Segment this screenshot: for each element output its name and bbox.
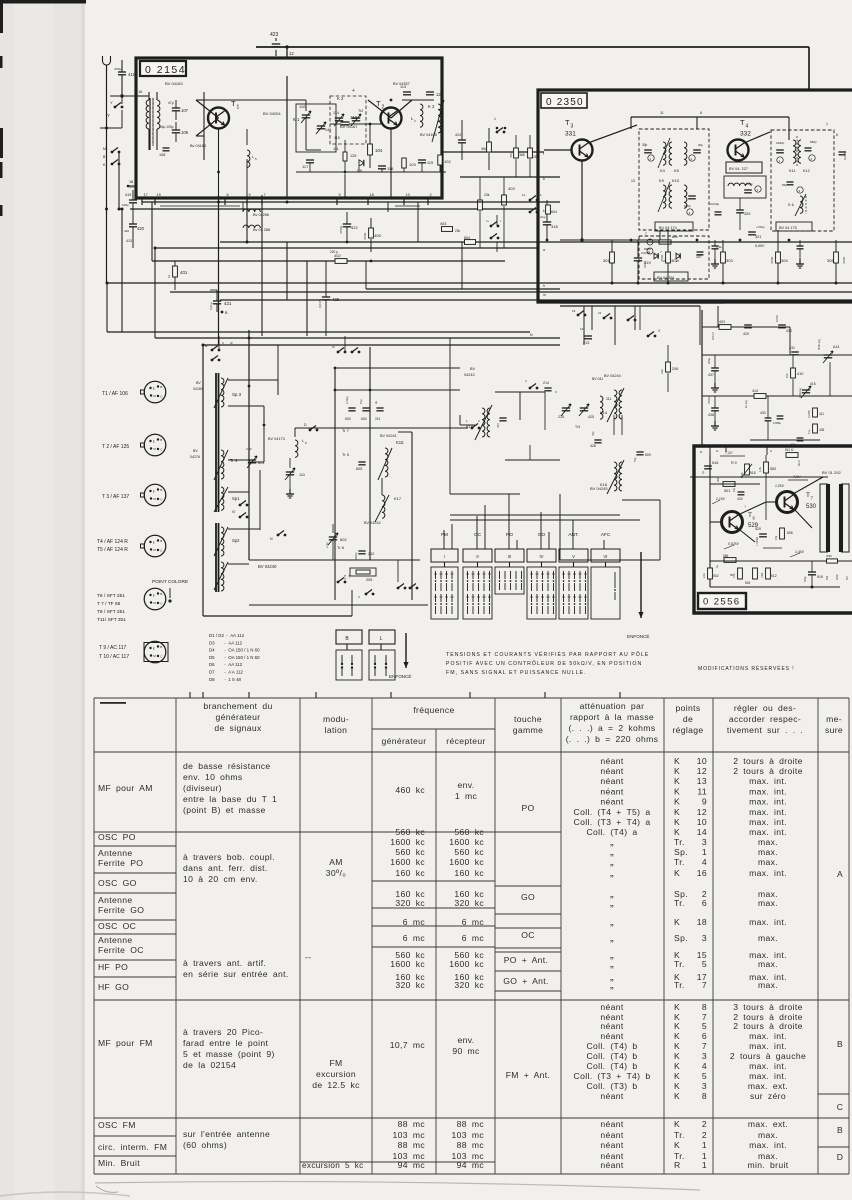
svg-text:16: 16	[138, 90, 142, 94]
svg-text:env. 10 ohms: env. 10 ohms	[183, 772, 243, 782]
svg-text:2: 2	[702, 1119, 707, 1129]
svg-text:ANT.: ANT.	[568, 532, 578, 538]
svg-text:max. int.: max. int.	[749, 797, 787, 807]
svg-text:1600 kc: 1600 kc	[390, 959, 425, 969]
svg-text:Sp2: Sp2	[232, 538, 240, 543]
svg-text:5: 5	[702, 1021, 707, 1031]
svg-text:19: 19	[572, 309, 576, 313]
svg-text:604: 604	[361, 417, 367, 421]
svg-text:Y: Y	[110, 100, 113, 105]
svg-text:11: 11	[660, 111, 664, 115]
svg-text:4: 4	[702, 1061, 707, 1071]
svg-text:15μ: 15μ	[359, 399, 363, 404]
svg-text:(point B) et masse: (point B) et masse	[183, 805, 266, 815]
svg-text:B: B	[160, 385, 162, 389]
svg-text:10: 10	[697, 817, 707, 827]
svg-text:0 2556: 0 2556	[703, 597, 740, 608]
svg-text:(53h: (53h	[826, 554, 832, 558]
svg-text:K10: K10	[672, 178, 680, 183]
svg-text:BV 041: BV 041	[592, 377, 603, 381]
svg-text:431: 431	[789, 346, 795, 350]
svg-text:320 kc: 320 kc	[454, 898, 484, 908]
svg-text:1k: 1k	[167, 274, 171, 278]
svg-text:K11: K11	[789, 169, 795, 173]
svg-text:2,2k/μ: 2,2k/μ	[345, 396, 349, 404]
svg-text:500k-log: 500k-log	[817, 339, 821, 350]
svg-text:K 1: K 1	[293, 117, 300, 122]
svg-text:110: 110	[299, 104, 306, 109]
svg-text:IV: IV	[540, 554, 544, 559]
svg-text:↑: ↑	[744, 504, 746, 509]
svg-text:425: 425	[588, 415, 594, 419]
svg-text:100p: 100p	[122, 203, 129, 207]
svg-text:419: 419	[125, 193, 131, 197]
svg-text:Tr 4: Tr 4	[230, 458, 238, 463]
svg-text:2: 2	[430, 193, 432, 197]
svg-text:30º/₀: 30º/₀	[326, 868, 346, 878]
svg-text:FM: FM	[329, 1058, 342, 1068]
svg-text:660p: 660p	[684, 204, 691, 208]
svg-text:4: 4	[702, 857, 707, 867]
svg-text:428: 428	[332, 297, 340, 302]
svg-text:néant: néant	[600, 1160, 624, 1170]
svg-text:1: 1	[702, 1160, 707, 1170]
svg-text:II: II	[476, 554, 478, 559]
svg-text:modu-: modu-	[323, 714, 349, 724]
svg-text:E: E	[153, 594, 155, 598]
svg-text:415: 415	[810, 382, 816, 386]
svg-text:dans ant. ferr. dist.: dans ant. ferr. dist.	[183, 863, 268, 873]
svg-text:K: K	[674, 1119, 680, 1129]
svg-text:B: B	[160, 645, 162, 649]
svg-text:K: K	[674, 1002, 680, 1012]
svg-text:T: T	[748, 512, 752, 519]
svg-text:K: K	[674, 827, 680, 837]
svg-text:6: 6	[702, 898, 707, 908]
svg-text:Coll. (T4 + T5) a: Coll. (T4 + T5) a	[574, 807, 651, 817]
svg-text:10: 10	[697, 756, 707, 766]
svg-text:403: 403	[508, 186, 515, 191]
svg-text:04169: 04169	[193, 387, 203, 391]
svg-text:à travers 20 Pico-: à travers 20 Pico-	[183, 1027, 263, 1037]
svg-text:4780p: 4780p	[339, 225, 343, 234]
svg-text:7: 7	[645, 232, 647, 236]
svg-text:K: K	[674, 1051, 680, 1061]
svg-text:1600 kc: 1600 kc	[449, 837, 484, 847]
svg-text:3: 3	[702, 837, 707, 847]
svg-text:12: 12	[697, 807, 707, 817]
svg-text:2μ: 2μ	[374, 400, 378, 404]
svg-text:5: 5	[702, 959, 707, 969]
svg-text:605: 605	[356, 467, 362, 471]
svg-text:88 mc: 88 mc	[457, 1119, 485, 1129]
svg-text:tivement sur . . .: tivement sur . . .	[727, 725, 803, 735]
svg-text:3,220k: 3,220k	[807, 410, 811, 418]
svg-text:2,16V: 2,16V	[715, 497, 726, 501]
svg-text:de signaux: de signaux	[214, 723, 262, 733]
svg-text:7μ: 7μ	[701, 470, 705, 474]
svg-text:K16: K16	[600, 482, 608, 487]
svg-text:530: 530	[806, 504, 817, 510]
svg-text:583: 583	[770, 467, 776, 471]
svg-text:à travers bob. coupl.: à travers bob. coupl.	[183, 852, 275, 862]
svg-text:B: B	[837, 1039, 843, 1049]
svg-text:Coll. (T3 + T4) b: Coll. (T3 + T4) b	[574, 1071, 651, 1081]
svg-text:88 mc: 88 mc	[457, 1140, 485, 1150]
svg-text:212: 212	[368, 552, 374, 556]
svg-text:K: K	[674, 917, 680, 927]
svg-text:Coll. (T3 + T4) a: Coll. (T3 + T4) a	[574, 817, 651, 827]
svg-text:436: 436	[819, 428, 825, 432]
svg-text:304: 304	[781, 258, 788, 263]
svg-text:K14: K14	[600, 410, 608, 415]
svg-text:T11/ SFT 351: T11/ SFT 351	[97, 617, 126, 623]
svg-text:D4 - OA 150 / 1 N 60: D4 - OA 150 / 1 N 60	[209, 648, 260, 653]
svg-text:régler ou des-: régler ou des-	[734, 703, 796, 713]
svg-text:K5: K5	[674, 168, 680, 173]
svg-text:néant: néant	[600, 1140, 624, 1150]
svg-text:K 6: K 6	[788, 203, 794, 207]
svg-text:HF GO: HF GO	[98, 982, 129, 992]
svg-text:D5 - OA 150 / 1 N 60: D5 - OA 150 / 1 N 60	[209, 655, 260, 660]
svg-text:47p: 47p	[496, 423, 500, 428]
svg-text:+: +	[352, 88, 355, 94]
svg-text:2: 2	[382, 105, 385, 111]
svg-text:160 kc: 160 kc	[395, 868, 425, 878]
svg-text:18: 18	[129, 180, 133, 184]
svg-text:3: 3	[702, 933, 707, 943]
svg-text:max.: max.	[758, 857, 778, 867]
svg-text:Ferrite GO: Ferrite GO	[98, 905, 144, 915]
svg-text:30p: 30p	[698, 143, 703, 147]
svg-text:47k: 47k	[509, 153, 513, 158]
svg-text:6,27 V: 6,27 V	[370, 196, 381, 200]
svg-text:OSC FM: OSC FM	[98, 1120, 136, 1130]
svg-text:100p: 100p	[746, 182, 753, 186]
svg-text:BV 04168: BV 04168	[420, 133, 437, 137]
svg-text:E: E	[153, 490, 155, 494]
svg-text:30p: 30p	[642, 143, 648, 147]
svg-text:433: 433	[760, 411, 766, 415]
svg-text:env.: env.	[457, 1035, 474, 1045]
svg-text:K: K	[674, 1091, 680, 1101]
svg-text:Antenne: Antenne	[98, 848, 132, 858]
svg-text:circ. interm. FM: circ. interm. FM	[98, 1142, 167, 1152]
svg-text:115: 115	[334, 136, 340, 140]
svg-text:néant: néant	[600, 756, 624, 766]
svg-text:T6 / SFT 351: T6 / SFT 351	[97, 593, 125, 599]
svg-text:de 12.5 kc: de 12.5 kc	[312, 1080, 360, 1090]
svg-text:15k: 15k	[774, 535, 778, 540]
svg-text:302: 302	[671, 258, 678, 263]
svg-text:320 kc: 320 kc	[395, 898, 425, 908]
svg-text:BV: BV	[470, 367, 476, 371]
svg-text:21: 21	[598, 311, 602, 315]
svg-text:10,7 mc: 10,7 mc	[390, 1040, 426, 1050]
svg-text:103: 103	[409, 162, 416, 167]
svg-text:0 2154: 0 2154	[145, 64, 186, 76]
svg-text:502: 502	[713, 574, 719, 578]
svg-text:BV 04242: BV 04242	[364, 521, 381, 525]
svg-text:64μ 100μ: 64μ 100μ	[160, 125, 174, 129]
svg-text:1: 1	[702, 1140, 707, 1150]
svg-text:15: 15	[157, 193, 161, 197]
svg-text:Tr 5: Tr 5	[342, 452, 350, 457]
svg-text:6: 6	[836, 133, 838, 137]
svg-text:B: B	[160, 539, 162, 543]
svg-text:BV 04 174: BV 04 174	[659, 226, 677, 230]
svg-text:excursion 5 kc: excursion 5 kc	[302, 1161, 364, 1170]
svg-text:(diviseur): (diviseur)	[183, 783, 222, 793]
svg-text:100Ω: 100Ω	[775, 315, 779, 322]
svg-text:50k: 50k	[825, 575, 829, 580]
svg-text:0,01μ: 0,01μ	[538, 215, 546, 219]
svg-text:OSC GO: OSC GO	[98, 878, 137, 888]
svg-text:K: K	[674, 787, 680, 797]
svg-text:Tr 7: Tr 7	[342, 428, 350, 433]
svg-text:lation: lation	[325, 725, 348, 735]
svg-text:E: E	[153, 387, 155, 391]
svg-text:excursion: excursion	[316, 1069, 356, 1079]
svg-text:K9: K9	[659, 178, 665, 183]
svg-text:Coll. (T4) b: Coll. (T4) b	[586, 1041, 637, 1051]
svg-text:8: 8	[702, 1002, 707, 1012]
svg-text:VI: VI	[604, 554, 608, 559]
svg-text:néant: néant	[600, 776, 624, 786]
svg-text:103 mc: 103 mc	[452, 1130, 485, 1140]
svg-text:321: 321	[755, 235, 761, 239]
svg-text:7/1k: 7/1k	[733, 573, 736, 578]
svg-text:branchement du: branchement du	[203, 701, 272, 711]
svg-text:214: 214	[543, 381, 549, 385]
svg-text:2,2к: 2,2к	[325, 542, 329, 548]
svg-text:560 kc: 560 kc	[395, 827, 425, 837]
svg-text:de basse résistance: de basse résistance	[183, 761, 270, 771]
svg-text:AM: AM	[329, 857, 343, 867]
svg-text:+700μ: +700μ	[756, 225, 765, 229]
svg-text:accorder respec-: accorder respec-	[729, 714, 801, 724]
svg-text:160 kc: 160 kc	[454, 868, 484, 878]
svg-text:BV 04204: BV 04204	[263, 111, 281, 116]
svg-text:(. . .) b = 220 ohms: (. . .) b = 220 ohms	[566, 734, 659, 744]
svg-text:0 2350: 0 2350	[546, 97, 584, 108]
svg-text:néant: néant	[600, 1002, 624, 1012]
svg-text:508: 508	[787, 531, 793, 535]
svg-text:max. int.: max. int.	[749, 1071, 787, 1081]
svg-text:max.: max.	[758, 837, 778, 847]
svg-text:10k: 10k	[785, 373, 789, 378]
svg-text:36k: 36k	[716, 477, 720, 482]
svg-text:5: 5	[702, 1071, 707, 1081]
svg-text:BV 04163: BV 04163	[165, 81, 183, 86]
svg-text:7,2V: 7,2V	[725, 451, 733, 455]
svg-text:0,4 V: 0,4 V	[163, 196, 172, 200]
svg-text:OSC OC: OSC OC	[98, 921, 136, 931]
svg-text:de: de	[683, 714, 693, 724]
svg-text:récepteur: récepteur	[446, 736, 485, 746]
svg-text:K: K	[674, 1081, 680, 1091]
svg-text:„: „	[610, 867, 614, 879]
svg-text:560 kc: 560 kc	[454, 847, 484, 857]
svg-text:47μ: 47μ	[168, 101, 174, 105]
svg-text:2 tours à droite: 2 tours à droite	[733, 756, 803, 766]
svg-text:0,015μ: 0,015μ	[710, 202, 720, 206]
svg-text:403: 403	[719, 320, 725, 324]
svg-text:T 9 / AC 117: T 9 / AC 117	[99, 645, 127, 651]
svg-text:GO: GO	[521, 892, 535, 902]
svg-text:C: C	[837, 1102, 844, 1112]
svg-text:BV: BV	[196, 381, 201, 385]
svg-text:K: K	[674, 868, 680, 878]
svg-text:1600 kc: 1600 kc	[390, 837, 425, 847]
svg-text:Tr.: Tr.	[674, 837, 685, 847]
svg-text:rapport à la masse: rapport à la masse	[570, 712, 654, 722]
svg-text:TENSIONS ET COURANTS VÉRIFI: TENSIONS ET COURANTS VÉRIFIÉS PAR RAPPOR…	[446, 651, 649, 658]
svg-text:III: III	[332, 345, 335, 349]
svg-text:2 tours à droite: 2 tours à droite	[733, 1021, 803, 1031]
svg-text:BV 01 292: BV 01 292	[822, 470, 841, 475]
svg-text:414: 414	[752, 389, 758, 393]
svg-text:Bv 04164: Bv 04164	[190, 144, 206, 148]
svg-text:atténuation par: atténuation par	[580, 701, 645, 711]
svg-text:10 à 20 cm env.: 10 à 20 cm env.	[183, 874, 258, 884]
svg-text:me-: me-	[826, 714, 842, 724]
svg-text:K: K	[674, 766, 680, 776]
svg-text:364: 364	[481, 147, 487, 151]
svg-text:néant: néant	[600, 1091, 624, 1101]
svg-text:réglage: réglage	[672, 725, 703, 735]
svg-text:103 mc: 103 mc	[393, 1130, 426, 1140]
svg-text:1k-log: 1k-log	[744, 400, 748, 408]
svg-text:56p: 56p	[782, 183, 787, 187]
svg-text:2,1k: 2,1k	[702, 572, 706, 578]
svg-text:à travers ant. artif.: à travers ant. artif.	[183, 958, 266, 968]
svg-text:Ferrite PO: Ferrite PO	[98, 858, 143, 868]
svg-text:f: f	[543, 152, 544, 156]
svg-text:R.9: R.9	[731, 461, 737, 465]
svg-text:504: 504	[745, 581, 751, 585]
svg-text:88 mc: 88 mc	[398, 1119, 426, 1129]
svg-text:Tr.: Tr.	[674, 898, 685, 908]
svg-text:100 Ω: 100 Ω	[711, 332, 715, 340]
svg-text:BV 04173: BV 04173	[268, 437, 285, 441]
svg-text:max. ext.: max. ext.	[748, 1081, 788, 1091]
svg-text:max. int.: max. int.	[749, 817, 787, 827]
svg-text:b: b	[543, 177, 545, 181]
svg-text:K: K	[674, 807, 680, 817]
svg-text:10: 10	[631, 179, 635, 183]
svg-text:OSC PO: OSC PO	[98, 832, 136, 842]
svg-text:0,8 V: 0,8 V	[205, 196, 214, 200]
svg-text:néant: néant	[600, 1130, 624, 1140]
svg-text:470Ω: 470Ω	[770, 256, 774, 264]
svg-text:23k: 23k	[660, 369, 664, 374]
svg-text:470Ω: 470Ω	[660, 254, 664, 262]
svg-text:1 mc: 1 mc	[455, 791, 478, 801]
svg-text:0,01μ: 0,01μ	[209, 302, 213, 310]
svg-text:6: 6	[227, 193, 229, 197]
svg-text:12: 12	[289, 51, 294, 56]
svg-text:6: 6	[702, 1031, 707, 1041]
svg-text:points: points	[675, 703, 700, 713]
svg-text:303: 303	[726, 258, 733, 263]
svg-text:0,022μ: 0,022μ	[641, 251, 651, 255]
svg-text:2 tours à droite: 2 tours à droite	[733, 766, 803, 776]
svg-text:307: 307	[696, 255, 702, 259]
svg-text:max.: max.	[758, 959, 778, 969]
svg-text:14: 14	[697, 827, 707, 837]
svg-text:305: 305	[827, 258, 834, 263]
svg-text:264: 264	[533, 155, 539, 159]
svg-text:602: 602	[340, 537, 347, 542]
svg-text:470Ω: 470Ω	[842, 256, 846, 264]
svg-text:11: 11	[697, 787, 707, 797]
svg-text:de la 02154: de la 02154	[183, 1060, 236, 1070]
svg-text:107: 107	[181, 108, 189, 113]
svg-text:6: 6	[700, 111, 702, 115]
svg-text:T: T	[740, 118, 745, 127]
svg-text:320: 320	[744, 212, 750, 216]
svg-text:Tr2: Tr2	[358, 109, 363, 113]
svg-text:6 mc: 6 mc	[403, 933, 426, 943]
svg-text:K: K	[674, 1021, 680, 1031]
svg-text:max.: max.	[758, 1130, 778, 1140]
svg-text:touche: touche	[514, 714, 542, 724]
svg-text:III: III	[230, 341, 233, 345]
svg-text:R: R	[674, 1160, 681, 1170]
svg-text:5: 5	[339, 193, 341, 197]
svg-text:K: K	[674, 1041, 680, 1051]
svg-text:111: 111	[299, 472, 306, 477]
svg-text:GO: GO	[538, 532, 546, 538]
svg-text:125: 125	[350, 154, 356, 158]
svg-text:B: B	[160, 488, 162, 492]
svg-text:gamme: gamme	[513, 725, 543, 735]
svg-text:3 tours à droite: 3 tours à droite	[733, 1002, 803, 1012]
svg-text:B: B	[837, 1125, 843, 1135]
svg-text:8: 8	[702, 1091, 707, 1101]
svg-text:410: 410	[797, 372, 803, 376]
svg-text:520: 520	[755, 527, 761, 531]
svg-text:5 et masse (point 9): 5 et masse (point 9)	[183, 1049, 275, 1059]
svg-text:100k: 100k	[761, 572, 764, 578]
svg-text:OC: OC	[521, 930, 535, 940]
svg-text:K: K	[674, 756, 680, 766]
svg-text:(60 ohms): (60 ohms)	[183, 1140, 227, 1150]
svg-text:max.: max.	[758, 980, 778, 990]
svg-text:T 10 / AC 117: T 10 / AC 117	[99, 654, 129, 660]
svg-text:max. int.: max. int.	[749, 1061, 787, 1071]
svg-text:D: D	[837, 1152, 844, 1162]
svg-text:T: T	[565, 118, 570, 127]
svg-text:Tr.: Tr.	[674, 980, 685, 990]
svg-text:max.: max.	[758, 847, 778, 857]
svg-text:B: B	[160, 592, 162, 596]
svg-text:88 mc: 88 mc	[398, 1140, 426, 1150]
svg-text:565: 565	[723, 554, 729, 558]
svg-text:603: 603	[345, 417, 351, 421]
svg-text:421: 421	[224, 301, 232, 306]
svg-text:320 kc: 320 kc	[454, 980, 484, 990]
svg-text:K: K	[674, 817, 680, 827]
svg-text:11: 11	[522, 193, 525, 197]
svg-text:411: 411	[819, 412, 824, 416]
svg-text:K 2: K 2	[337, 96, 344, 101]
svg-text:331: 331	[565, 131, 576, 138]
svg-text:K: K	[674, 1140, 680, 1150]
svg-text:205: 205	[366, 578, 372, 582]
svg-text:néant: néant	[600, 797, 624, 807]
